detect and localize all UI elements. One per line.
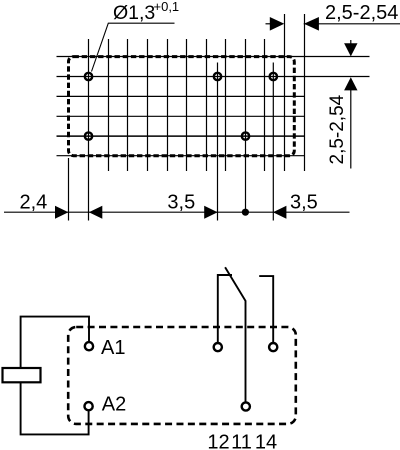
relay body outline (dashed, schematic) xyxy=(68,327,296,424)
svg-text:3,5: 3,5 xyxy=(167,192,195,214)
arrowhead left at grid column xyxy=(304,17,319,31)
pin grid rows (2.5mm pitch) xyxy=(57,57,370,156)
coil K xyxy=(3,368,41,382)
svg-text:+0,1: +0,1 xyxy=(154,0,180,14)
pin A2 xyxy=(85,402,93,410)
arrowhead right at pin column 12 xyxy=(204,206,217,219)
svg-text:11: 11 xyxy=(231,432,252,450)
arrowhead left at pin column 14 xyxy=(273,206,286,219)
extension line at footprint left edge xyxy=(68,158,70,221)
wire pin 14 with NO contact stub xyxy=(259,276,273,342)
svg-text:A1: A1 xyxy=(101,337,125,359)
relay footprint outline (dashed) xyxy=(69,57,295,156)
svg-text:2,5-2,54: 2,5-2,54 xyxy=(325,2,398,24)
pin 14 xyxy=(269,343,277,351)
pad hole 12 xyxy=(214,73,221,80)
svg-text:12: 12 xyxy=(207,432,229,450)
pad column line pin 12 xyxy=(217,63,219,221)
svg-text:Ø1,3: Ø1,3 xyxy=(113,2,155,24)
svg-text:A2: A2 xyxy=(102,394,126,416)
wire pin 12 with NC contact stub xyxy=(218,275,232,342)
pad column line pin 14 xyxy=(272,63,274,221)
extension line pin column 11 xyxy=(245,171,247,212)
dimension dot at pin column 11 xyxy=(242,209,249,216)
pin A1 xyxy=(85,342,93,350)
pad hole 11 xyxy=(242,132,249,139)
pin grid columns (2.5mm pitch) xyxy=(89,14,285,171)
pin 12 xyxy=(214,343,222,351)
svg-text:2,5-2,54: 2,5-2,54 xyxy=(327,94,348,164)
arrowhead left at pin column A1 xyxy=(89,206,102,219)
pad hole A2 xyxy=(85,132,92,139)
up arrow and tail of vertical pitch dimension xyxy=(344,77,357,90)
leader line for hole diameter xyxy=(92,23,175,71)
svg-text:3,5: 3,5 xyxy=(290,192,318,214)
wire A1 to coil xyxy=(21,317,89,368)
bottom dimension line xyxy=(4,211,350,213)
pin 11 xyxy=(242,402,250,410)
dimension line 2,5-2,54 horizontal (top right) xyxy=(304,23,400,25)
svg-text:2,4: 2,4 xyxy=(20,192,48,214)
pad hole 14 xyxy=(270,73,277,80)
grid column / extension line for 2,5-2,54 dimension xyxy=(304,14,306,171)
top dimension tail line left of column xyxy=(266,23,272,25)
arrowhead right at grid column 284.5 xyxy=(270,17,285,31)
movable contact blade from pin 11 xyxy=(225,267,245,402)
arrowhead right at footprint edge xyxy=(55,206,68,219)
wire coil to A2 xyxy=(21,382,89,434)
svg-text:14: 14 xyxy=(255,432,277,450)
down arrow of vertical pitch dimension xyxy=(350,40,352,45)
pad hole A1 xyxy=(85,73,92,80)
extension line pin column A1 xyxy=(88,171,90,221)
